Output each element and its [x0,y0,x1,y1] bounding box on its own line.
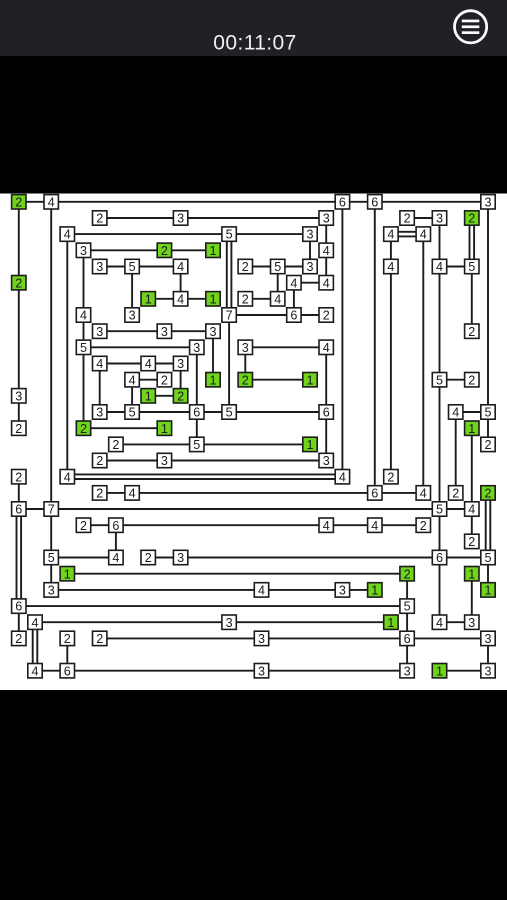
island col 15 row 27 value 3 open [254,631,268,646]
island col 4 row 3 value 3 open [76,243,90,258]
island col 20 row 0 value 6 open [335,195,349,210]
svg-text:5: 5 [274,260,281,274]
island col 19 row 20 value 4 open [319,518,333,533]
island col 28 row 21 value 2 open [465,534,479,549]
svg-text:6: 6 [290,309,297,323]
double bridge row 2: col 23 to col 25 [391,232,423,237]
svg-text:4: 4 [387,228,394,242]
svg-text:2: 2 [242,373,249,387]
island col 19 row 13 value 6 open [319,405,333,420]
svg-text:3: 3 [484,195,491,209]
island col 2 row 24 value 3 open [44,583,58,598]
island col 9 row 3 value 2 done [157,243,171,258]
menu icon (circle with three bars) [455,11,487,43]
bridge col 29: row 22 to row 24 [487,558,489,590]
svg-text:5: 5 [436,503,443,517]
svg-text:4: 4 [48,195,55,209]
island col 14 row 6 value 2 open [238,292,252,307]
island col 8 row 10 value 4 open [141,356,155,371]
island col 20 row 24 value 3 open [335,583,349,598]
bridge row 13: col 7 to col 11 [132,411,197,413]
svg-text:3: 3 [226,616,233,630]
island col 15 row 29 value 3 open [254,664,268,679]
island col 24 row 25 value 5 open [400,599,414,614]
svg-text:2: 2 [468,212,475,226]
svg-text:6: 6 [323,406,330,420]
svg-text:5: 5 [404,600,411,614]
island col 16 row 6 value 4 open [271,292,285,307]
bridge col 4: row 3 to row 7 [83,250,85,315]
island col 25 row 18 value 4 open [416,486,430,501]
bridge row 22: col 2 to col 6 [51,557,116,559]
svg-text:4: 4 [64,470,71,484]
island col 4 row 20 value 2 open [76,518,90,533]
double bridge col 29: row 18 to row 22 [486,493,491,558]
bridge row 11: col 7 to col 9 [132,379,164,381]
island col 6 row 22 value 4 open [109,550,123,565]
island col 27 row 18 value 2 open [449,486,463,501]
bridge row 6: col 8 to col 10 [148,298,180,300]
island col 5 row 13 value 3 open [93,405,107,420]
bridge col 2: row 0 to row 19 [50,202,52,509]
island col 14 row 9 value 3 open [238,340,252,355]
bridge row 9: col 14 to col 19 [245,346,326,348]
svg-text:3: 3 [306,260,313,274]
island col 23 row 26 value 1 done [384,615,398,630]
svg-text:2: 2 [404,212,411,226]
bridge row 10: col 5 to col 8 [100,363,149,365]
double bridge col 13: row 2 to row 7 [227,234,232,315]
svg-text:3: 3 [323,212,330,226]
island col 10 row 6 value 4 open [173,292,187,307]
bridge col 13: row 7 to row 13 [228,315,230,412]
svg-text:4: 4 [129,373,136,387]
island col 10 row 10 value 3 open [173,356,187,371]
bridge row 13: col 5 to col 7 [100,411,132,413]
svg-text:3: 3 [323,454,330,468]
bridge row 8: col 9 to col 12 [164,330,213,332]
island col 28 row 23 value 1 done [465,567,479,582]
bridge col 26: row 1 to row 4 [439,218,441,267]
svg-text:3: 3 [15,389,22,403]
bridge col 18: row 2 to row 4 [309,234,311,266]
svg-text:6: 6 [64,664,71,678]
svg-text:4: 4 [80,309,87,323]
island col 24 row 27 value 6 open [400,631,414,646]
bridge col 23: row 4 to row 17 [390,267,392,477]
island col 1 row 29 value 4 open [28,664,42,679]
svg-text:5: 5 [484,406,491,420]
svg-text:2: 2 [323,309,330,323]
bridge row 3: col 4 to col 9 [84,249,165,251]
svg-text:3: 3 [339,584,346,598]
bridge col 24: row 27 to row 29 [406,638,408,670]
island col 3 row 23 value 1 done [60,567,74,582]
island col 19 row 3 value 4 open [319,243,333,258]
svg-text:4: 4 [96,357,103,371]
island col 28 row 4 value 5 open [465,259,479,274]
island col 12 row 3 value 1 done [206,243,220,258]
island col 26 row 4 value 4 open [432,259,446,274]
island col 9 row 8 value 3 open [157,324,171,339]
bridge row 12: col 8 to col 10 [148,395,180,397]
island col 3 row 27 value 2 open [60,631,74,646]
svg-text:4: 4 [323,276,330,290]
bridge row 6: col 14 to col 16 [245,298,277,300]
svg-text:5: 5 [129,406,136,420]
island col 18 row 4 value 3 open [303,259,317,274]
bridge col 0: row 5 to row 12 [18,283,20,396]
svg-text:4: 4 [64,228,71,242]
bridge col 0: row 25 to row 27 [18,606,20,638]
island col 14 row 4 value 2 open [238,259,252,274]
svg-text:2: 2 [404,567,411,581]
bridge col 11: row 13 to row 15 [196,412,198,444]
svg-text:1: 1 [436,664,443,678]
svg-text:3: 3 [468,616,475,630]
bridge col 26: row 11 to row 19 [439,380,441,509]
svg-text:4: 4 [31,616,38,630]
island col 8 row 12 value 1 done [141,389,155,404]
svg-text:5: 5 [468,260,475,274]
svg-text:00:11:07: 00:11:07 [213,32,296,55]
bridge row 15: col 11 to col 18 [197,443,310,445]
svg-text:2: 2 [468,373,475,387]
svg-text:4: 4 [31,664,38,678]
island col 0 row 0 value 2 done [12,195,26,210]
island col 25 row 20 value 2 open [416,518,430,533]
double bridge row 17: col 3 to col 20 [67,474,342,479]
island col 19 row 16 value 3 open [319,453,333,468]
svg-text:1: 1 [209,373,216,387]
bridge row 27: col 24 to col 29 [407,637,488,639]
island col 18 row 11 value 1 done [303,373,317,388]
island col 18 row 2 value 3 open [303,227,317,242]
bridge col 19: row 13 to row 16 [325,412,327,461]
bridge col 0: row 12 to row 14 [18,396,20,428]
island col 29 row 22 value 5 open [481,550,495,565]
svg-text:6: 6 [404,632,411,646]
svg-text:5: 5 [129,260,136,274]
island col 26 row 29 value 1 done [432,664,446,679]
bridge col 29: row 27 to row 29 [487,638,489,670]
svg-text:5: 5 [80,341,87,355]
island col 5 row 1 value 2 open [93,211,107,226]
svg-text:2: 2 [145,551,152,565]
island col 28 row 11 value 2 open [465,373,479,388]
bridge row 0: col 20 to col 22 [342,201,374,203]
svg-text:4: 4 [420,228,427,242]
island col 26 row 11 value 5 open [432,373,446,388]
island col 29 row 24 value 1 done [481,583,495,598]
island col 0 row 12 value 3 open [12,389,26,404]
svg-text:2: 2 [112,438,119,452]
svg-text:4: 4 [420,487,427,501]
island col 16 row 4 value 5 open [271,259,285,274]
island col 8 row 22 value 2 open [141,550,155,565]
bridge col 2: row 19 to row 22 [50,509,52,558]
island col 0 row 5 value 2 done [12,276,26,291]
bridge row 19: col 26 to col 28 [440,508,472,510]
island col 19 row 5 value 4 open [319,276,333,291]
island col 23 row 17 value 2 open [384,470,398,485]
bridge col 19: row 3 to row 5 [325,250,327,282]
svg-text:4: 4 [323,341,330,355]
bridge row 9: col 4 to col 11 [84,346,197,348]
svg-text:2: 2 [96,212,103,226]
bridge row 1: col 5 to col 10 [100,217,181,219]
svg-text:1: 1 [468,567,475,581]
bridge col 26: row 4 to row 11 [439,267,441,380]
svg-text:3: 3 [177,551,184,565]
bridge row 27: col 15 to col 24 [262,637,408,639]
bridge row 26: col 13 to col 23 [229,621,391,623]
svg-text:3: 3 [258,632,265,646]
island col 0 row 25 value 6 open [12,599,26,614]
bridge col 7: row 4 to row 7 [131,267,133,316]
island col 6 row 15 value 2 open [109,437,123,452]
bridge row 27: col 5 to col 15 [100,637,262,639]
island col 28 row 14 value 1 done [465,421,479,436]
island col 5 row 4 value 3 open [93,259,107,274]
island col 19 row 1 value 3 open [319,211,333,226]
bridge col 14: row 9 to row 11 [244,347,246,379]
svg-text:1: 1 [145,389,152,403]
island col 4 row 9 value 5 open [76,340,90,355]
island col 22 row 20 value 4 open [368,518,382,533]
svg-text:3: 3 [242,341,249,355]
bridge col 28: row 19 to row 21 [471,509,473,541]
svg-text:2: 2 [80,519,87,533]
bridge row 4: col 14 to col 16 [245,266,277,268]
svg-text:5: 5 [436,373,443,387]
svg-text:5: 5 [226,228,233,242]
island col 11 row 15 value 5 open [190,437,204,452]
svg-text:3: 3 [48,584,55,598]
svg-text:4: 4 [274,292,281,306]
island col 24 row 1 value 2 open [400,211,414,226]
island col 5 row 10 value 4 open [93,356,107,371]
svg-text:2: 2 [484,487,491,501]
svg-text:2: 2 [80,422,87,436]
bridge row 22: col 26 to col 29 [440,557,489,559]
svg-text:1: 1 [161,422,168,436]
island col 17 row 5 value 4 open [287,276,301,291]
bridge col 12: row 8 to row 11 [212,331,214,380]
svg-text:4: 4 [258,584,265,598]
svg-text:6: 6 [15,600,22,614]
bridge col 22: row 0 to row 18 [374,202,376,493]
svg-text:1: 1 [306,438,313,452]
bridge col 19: row 9 to row 13 [325,347,327,412]
bridge col 11: row 9 to row 13 [196,347,198,412]
svg-text:3: 3 [306,228,313,242]
island col 5 row 16 value 2 open [93,453,107,468]
bridge col 19: row 1 to row 3 [325,218,327,250]
bridge row 4: col 7 to col 10 [132,266,181,268]
island col 10 row 1 value 3 open [173,211,187,226]
svg-text:2: 2 [452,487,459,501]
puzzle board background [0,194,507,691]
island col 9 row 14 value 1 done [157,421,171,436]
bridge col 0: row 17 to row 19 [18,477,20,509]
bridge row 18: col 7 to col 22 [132,492,375,494]
top status bar [0,0,507,56]
bridge row 1: col 10 to col 19 [181,217,327,219]
svg-text:1: 1 [387,616,394,630]
island col 5 row 27 value 2 open [93,631,107,646]
svg-text:4: 4 [145,357,152,371]
island col 4 row 14 value 2 done [76,421,90,436]
island col 5 row 18 value 2 open [93,486,107,501]
bridge row 3: col 9 to col 12 [164,249,213,251]
island col 27 row 13 value 4 open [449,405,463,420]
svg-text:4: 4 [387,260,394,274]
bridge row 16: col 5 to col 9 [100,460,165,462]
bridge col 0: row 0 to row 5 [18,202,20,283]
island col 8 row 6 value 1 done [141,292,155,307]
bridge col 26: row 19 to row 22 [439,509,441,558]
island col 22 row 18 value 6 open [368,486,382,501]
bridge col 4: row 9 to row 14 [83,347,85,428]
double bridge col 0: row 19 to row 25 [17,509,22,606]
bridge row 19: col 2 to col 26 [51,508,439,510]
island col 12 row 8 value 3 open [206,324,220,339]
island col 9 row 11 value 2 open [157,373,171,388]
svg-text:6: 6 [193,406,200,420]
island col 28 row 26 value 3 open [465,615,479,630]
bridge row 2: col 3 to col 13 [67,233,229,235]
bridge col 10: row 4 to row 6 [180,267,182,299]
island col 11 row 13 value 6 open [190,405,204,420]
bridge col 28: row 14 to row 19 [471,428,473,509]
island col 3 row 17 value 4 open [60,470,74,485]
island col 25 row 2 value 4 open [416,227,430,242]
bridge row 16: col 9 to col 19 [164,460,326,462]
svg-text:3: 3 [436,212,443,226]
bridge row 4: col 16 to col 18 [278,266,310,268]
bridge col 3: row 27 to row 29 [66,638,68,670]
bridge col 24: row 25 to row 27 [406,606,408,638]
island col 15 row 24 value 4 open [254,583,268,598]
bridge row 26: col 1 to col 13 [35,621,229,623]
svg-text:2: 2 [468,535,475,549]
island col 0 row 19 value 6 open [12,502,26,517]
svg-text:2: 2 [96,454,103,468]
bridge row 11: col 26 to col 28 [440,379,472,381]
svg-text:2: 2 [96,632,103,646]
island col 3 row 2 value 4 open [60,227,74,242]
island col 23 row 4 value 4 open [384,259,398,274]
svg-text:1: 1 [209,292,216,306]
double bridge col 28: row 1 to row 4 [470,218,475,267]
island col 28 row 8 value 2 open [465,324,479,339]
svg-text:2: 2 [161,244,168,258]
bridge row 13: col 11 to col 13 [197,411,229,413]
svg-text:3: 3 [177,357,184,371]
svg-text:4: 4 [112,551,119,565]
svg-text:4: 4 [323,519,330,533]
svg-text:4: 4 [339,470,346,484]
island col 13 row 26 value 3 open [222,615,236,630]
svg-text:4: 4 [177,292,184,306]
island col 10 row 12 value 2 done [173,389,187,404]
island col 7 row 18 value 4 open [125,486,139,501]
island col 13 row 7 value 7 open [222,308,236,323]
island col 24 row 23 value 2 done [400,567,414,582]
bridge row 0: col 22 to col 29 [375,201,488,203]
svg-text:2: 2 [468,325,475,339]
svg-text:2: 2 [15,632,22,646]
bridge col 27: row 13 to row 18 [455,412,457,493]
svg-text:3: 3 [96,406,103,420]
svg-text:2: 2 [242,260,249,274]
svg-text:1: 1 [64,567,71,581]
bridge col 17: row 5 to row 7 [293,283,295,315]
island col 7 row 7 value 3 open [125,308,139,323]
bridge row 7: col 13 to col 17 [229,314,294,316]
island col 29 row 29 value 3 open [481,664,495,679]
svg-text:3: 3 [404,664,411,678]
svg-text:3: 3 [96,260,103,274]
island col 13 row 13 value 5 open [222,405,236,420]
bridge row 20: col 22 to col 25 [375,524,424,526]
island col 4 row 7 value 4 open [76,308,90,323]
bridge row 23: col 3 to col 24 [67,573,407,575]
bridge col 29: row 13 to row 15 [487,412,489,444]
island col 10 row 22 value 3 open [173,550,187,565]
bridge row 11: col 14 to col 18 [245,379,310,381]
bridge row 25: col 0 to col 24 [19,605,407,607]
bridge col 16: row 4 to row 6 [277,267,279,299]
svg-text:4: 4 [468,503,475,517]
island col 7 row 13 value 5 open [125,405,139,420]
bridge row 2: col 13 to col 18 [229,233,310,235]
svg-text:1: 1 [484,584,491,598]
island col 2 row 0 value 4 open [44,195,58,210]
island col 12 row 6 value 1 done [206,292,220,307]
svg-text:6: 6 [112,519,119,533]
bridge row 5: col 17 to col 19 [294,282,326,284]
island col 26 row 26 value 4 open [432,615,446,630]
bridge row 29: col 15 to col 24 [262,670,408,672]
bridge row 13: col 13 to col 19 [229,411,326,413]
bridge row 13: col 27 to col 29 [456,411,488,413]
svg-text:3: 3 [161,454,168,468]
bridge row 29: col 26 to col 29 [440,670,489,672]
svg-text:1: 1 [145,292,152,306]
bridge col 7: row 11 to row 13 [131,380,133,412]
svg-text:4: 4 [323,244,330,258]
svg-text:3: 3 [129,309,136,323]
bridge row 22: col 8 to col 10 [148,557,180,559]
svg-text:3: 3 [177,212,184,226]
island col 10 row 4 value 4 open [173,259,187,274]
island col 9 row 16 value 3 open [157,453,171,468]
island col 11 row 9 value 3 open [190,340,204,355]
svg-text:6: 6 [15,503,22,517]
island col 13 row 2 value 5 open [222,227,236,242]
svg-text:2: 2 [177,389,184,403]
island col 23 row 2 value 4 open [384,227,398,242]
bridge col 6: row 20 to row 22 [115,525,117,557]
bridge row 20: col 4 to col 6 [84,524,116,526]
svg-text:4: 4 [290,276,297,290]
island col 22 row 0 value 6 open [368,195,382,210]
island col 19 row 7 value 2 open [319,308,333,323]
svg-text:4: 4 [452,406,459,420]
svg-text:3: 3 [209,325,216,339]
